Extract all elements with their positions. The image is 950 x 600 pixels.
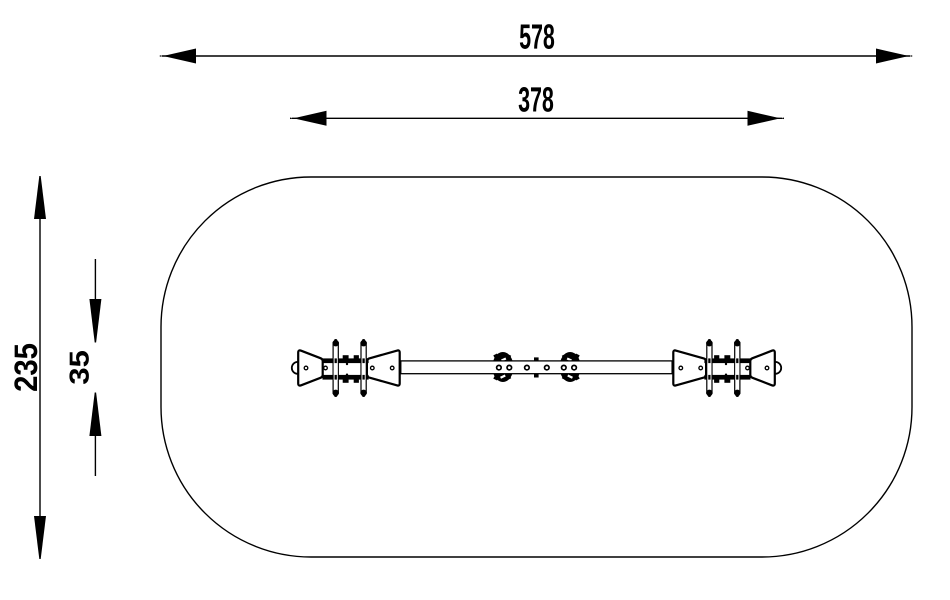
dimension 35 lower extension line xyxy=(94,435,96,476)
dimension 235 top arrowhead xyxy=(34,176,46,219)
right end assembly (mirrored) xyxy=(560,339,782,397)
dimension 35 lower arrowhead (pointing up) xyxy=(89,393,101,437)
dimension 235 line xyxy=(39,178,41,557)
dimension 578 label xyxy=(520,24,554,49)
dimension 378 left arrowhead xyxy=(290,111,327,126)
dimension 235 label xyxy=(14,344,37,391)
dimension 235 bottom arrowhead xyxy=(34,516,46,559)
dimension 578 right arrowhead xyxy=(876,49,912,64)
dimension 35 upper arrowhead (pointing down) xyxy=(89,299,101,343)
dimension 378 label xyxy=(519,87,553,112)
dimension 378 right arrowhead xyxy=(748,111,785,126)
beam hole 3 xyxy=(524,365,530,371)
beam center tab top xyxy=(534,357,539,361)
beam hole 1 xyxy=(496,365,502,371)
safety zone stadium outline xyxy=(161,177,912,557)
beam hole 4 xyxy=(544,365,550,371)
beam hole 5 xyxy=(561,365,567,371)
beam hole 2 xyxy=(506,365,512,371)
dimension 35 label xyxy=(69,351,89,384)
dimension 578 left arrowhead xyxy=(160,49,196,64)
beam hole 6 xyxy=(571,365,577,371)
dimension 35 upper extension line xyxy=(94,259,96,300)
dimension 378 line xyxy=(292,117,782,119)
main beam xyxy=(401,361,672,374)
dimension 578 line xyxy=(162,55,910,57)
left end assembly (seat, tubes, clamp, coupling) xyxy=(292,339,514,397)
beam center tab bottom xyxy=(534,374,539,378)
